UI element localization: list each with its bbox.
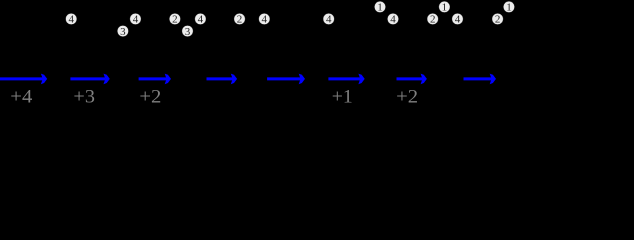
svg-text:+1: +1 [332, 88, 353, 108]
arrow op1 [0, 74, 47, 85]
wire edge 1-4 state6 [380, 7, 393, 19]
svg-text:+4: +4 [10, 88, 32, 108]
svg-text:−2: −2 [275, 88, 297, 108]
arrow op3 [139, 74, 171, 85]
arrow op5 [267, 74, 305, 85]
svg-text:3: 3 [185, 26, 191, 38]
arrow op7 [397, 74, 427, 85]
svg-text:4: 4 [68, 14, 74, 26]
arrow op4 [207, 74, 238, 85]
svg-text:4: 4 [455, 14, 461, 26]
node 1 state7 [439, 1, 450, 13]
wire edge 1-2 state8 [498, 7, 509, 19]
node 4 state1 [66, 13, 77, 25]
svg-text:4: 4 [326, 14, 332, 26]
svg-text:3: 3 [120, 26, 126, 38]
wire edge 1-4 state7 [444, 7, 457, 19]
node 3 state2 [117, 25, 128, 37]
node 1 state6 [374, 1, 385, 13]
svg-text:−3: −3 [211, 88, 233, 108]
svg-text:4: 4 [262, 14, 268, 26]
wire edge 1-2 state7 [433, 7, 445, 19]
svg-text:1: 1 [442, 2, 448, 14]
node 2 state4 [234, 13, 245, 25]
node 2 state7 [427, 13, 438, 25]
svg-text:1: 1 [506, 2, 512, 14]
wire edge 4-3 state3 [188, 19, 201, 31]
node 4 state7 [452, 13, 463, 25]
node 4 state4 [259, 13, 270, 25]
wire edge 4-3 state2 [123, 19, 136, 31]
node 2 state3 [169, 13, 180, 25]
svg-text:1: 1 [377, 2, 383, 14]
svg-text:2: 2 [495, 14, 501, 26]
node 4 state6 [387, 13, 398, 25]
node 4 state2 [130, 13, 141, 25]
svg-text:+2: +2 [139, 88, 161, 108]
node 3 state3 [182, 25, 193, 37]
svg-text:4: 4 [390, 14, 396, 26]
svg-text:2: 2 [237, 14, 243, 26]
node 2 state8 [492, 13, 503, 25]
node 4 state5 [323, 13, 334, 25]
node 1 state8 [503, 1, 514, 13]
svg-text:−4: −4 [469, 88, 491, 108]
node 4 state3 [195, 13, 206, 25]
svg-text:2: 2 [172, 14, 178, 26]
svg-text:2: 2 [430, 14, 436, 26]
svg-text:+2: +2 [396, 88, 418, 108]
arrow op8 [464, 74, 497, 85]
svg-text:+3: +3 [73, 88, 95, 108]
svg-text:4: 4 [198, 14, 204, 26]
arrow op2 [70, 74, 109, 85]
svg-text:4: 4 [133, 14, 139, 26]
arrow op6 [328, 74, 364, 85]
